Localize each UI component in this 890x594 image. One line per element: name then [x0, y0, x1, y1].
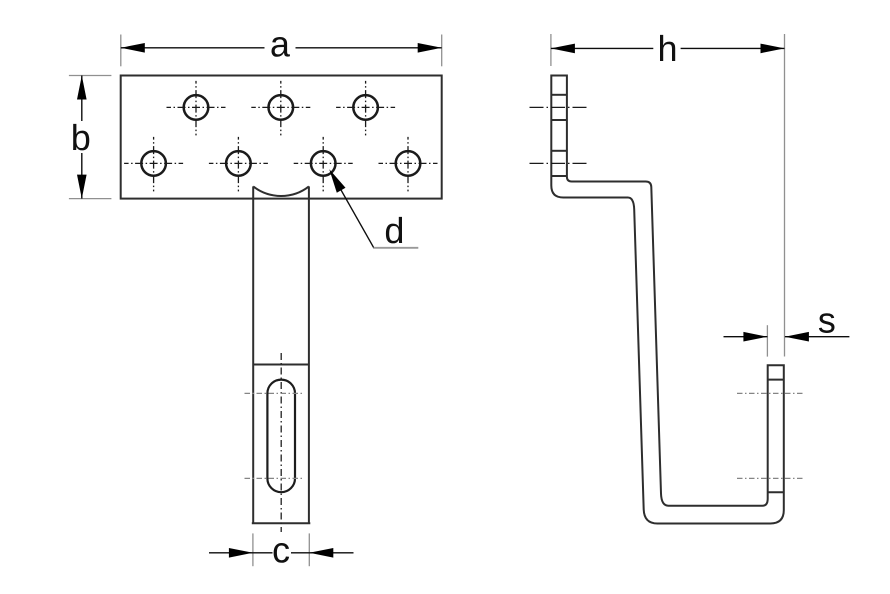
side view: slot arc centerline top: [737, 392, 803, 394]
dimension b: line: [81, 76, 83, 199]
dimension a: arrowheads: [121, 43, 145, 53]
dimension c: extension lines: [253, 533, 309, 566]
centerline: bar vertical axis: [280, 353, 282, 532]
hole B2 crosshair: [209, 137, 268, 192]
hole T1: [184, 95, 209, 120]
hole T2 crosshair: [251, 81, 310, 135]
dimension a: label: [272, 37, 290, 57]
front view: bend line across bar: [253, 364, 309, 366]
front view: concave weld arc at bar top: [253, 186, 309, 196]
centerline: slot bottom arc: [245, 477, 304, 479]
side view: hole edge tick 3: [551, 150, 567, 152]
dimension s: extension lines: [766, 325, 768, 356]
dimension b: extension lines: [69, 76, 112, 199]
leader d: arrowhead: [329, 169, 345, 192]
dimension c: arrowheads: [229, 548, 253, 558]
centerline: slot top arc: [245, 392, 304, 394]
hole B4: [396, 151, 421, 176]
hole T3: [353, 95, 378, 120]
dimension h: label: [660, 35, 675, 61]
side view: hole row centerline 2: [530, 162, 590, 164]
hole T2: [269, 95, 294, 120]
front view: mounting plate outline: [121, 76, 442, 199]
front view: hanger bar right edge: [308, 186, 310, 523]
hole T3 crosshair: [336, 81, 395, 135]
side view: hole edge tick 1: [551, 94, 567, 96]
front view: hanger bar bottom edge: [252, 522, 310, 524]
side view: hole row centerline 1: [530, 106, 590, 108]
dimension c: line: [209, 552, 354, 554]
hole B4 crosshair: [379, 137, 438, 192]
hole B1 crosshair: [124, 137, 183, 192]
side view: slot arc centerline bottom: [737, 477, 803, 479]
front view: hanger bar left edge: [252, 186, 254, 523]
hole B3: [311, 151, 336, 176]
dimension b: arrowheads: [77, 76, 87, 100]
side view: hole edge tick 2: [551, 119, 567, 121]
leader d: underline: [374, 247, 419, 249]
dimension s: arrowheads: [743, 332, 767, 342]
dimension h: extension lines: [551, 34, 785, 357]
front view: slot (oblong hole): [267, 380, 295, 493]
hole B2: [226, 151, 251, 176]
side view: slot end tick top: [768, 379, 784, 381]
side view: slot end tick bottom: [768, 491, 784, 493]
side view: bent hook profile: [551, 76, 784, 524]
hole T1 crosshair: [167, 81, 226, 135]
dimension a: extension lines: [121, 35, 442, 67]
dimension s: line: [724, 336, 850, 338]
leader d: arrow line: [331, 172, 374, 248]
hole B1: [141, 151, 166, 176]
dimension b: label: [73, 124, 89, 150]
dimension s: label: [819, 313, 835, 333]
dimension h: arrowheads: [551, 44, 575, 54]
dimension c: label: [274, 543, 290, 563]
dimension h: line: [551, 47, 785, 49]
hole B3 crosshair: [294, 137, 353, 192]
side view: hole edge tick 4: [551, 175, 567, 177]
leader d: label: [386, 217, 402, 244]
dimension a: line: [121, 47, 442, 49]
